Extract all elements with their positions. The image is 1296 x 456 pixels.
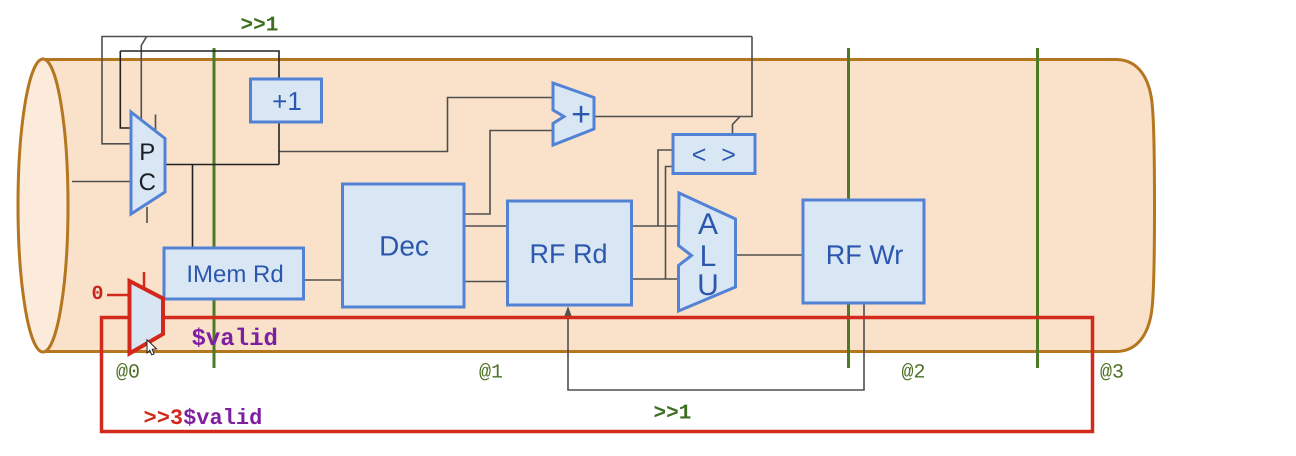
svg-text:RF Rd: RF Rd	[529, 239, 607, 269]
svg-text:$valid: $valid	[192, 326, 278, 353]
svg-text:+: +	[571, 96, 591, 134]
svg-text:U: U	[697, 269, 719, 302]
svg-text:Dec: Dec	[379, 231, 429, 262]
svg-text:<: <	[692, 141, 707, 169]
svg-text:C: C	[139, 169, 156, 196]
svg-text:>>3$valid: >>3$valid	[144, 406, 263, 431]
svg-text:RF Wr: RF Wr	[826, 240, 903, 270]
svg-text:@1: @1	[479, 362, 503, 385]
svg-text:>>1: >>1	[654, 403, 692, 426]
svg-text:@2: @2	[902, 362, 926, 385]
svg-text:@0: @0	[116, 362, 140, 385]
svg-text:@3: @3	[1100, 362, 1124, 385]
svg-text:P: P	[139, 139, 155, 166]
svg-text:A: A	[698, 208, 718, 241]
svg-text:>>1: >>1	[241, 15, 279, 38]
svg-text:IMem Rd: IMem Rd	[186, 261, 283, 288]
svg-text:0: 0	[92, 283, 104, 306]
svg-text:+1: +1	[272, 86, 302, 116]
svg-text:>: >	[721, 141, 736, 169]
